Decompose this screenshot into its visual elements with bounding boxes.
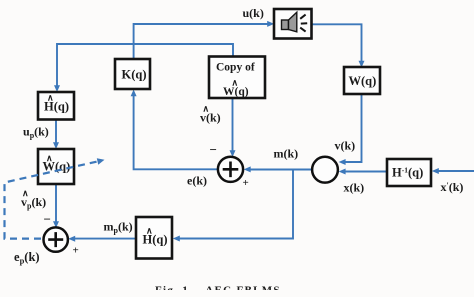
block Copy of W^(q) xyxy=(209,57,265,99)
wire: loudspeaker output right then down into W(q) xyxy=(312,24,365,67)
svg-text:v(k): v(k) xyxy=(335,139,356,153)
block K(q) xyxy=(115,59,150,89)
svg-text:u(k): u(k) xyxy=(243,6,264,20)
wire m(k): mixing node output left into summer e(k) xyxy=(244,166,313,172)
block H^(q) top-left xyxy=(38,92,74,120)
summer e(k) xyxy=(218,157,243,182)
wire e(k): summer output left then up into K(q) bottom xyxy=(131,90,218,170)
wire v(k): W(q) output down then left into mixing node xyxy=(339,94,362,165)
svg-text:−: − xyxy=(44,212,51,227)
svg-text:ep(k): ep(k) xyxy=(14,250,40,266)
wire: u(k) tap line to top-left H(q) and Copy of W(q) xyxy=(54,44,233,92)
block H^(q) bottom xyxy=(136,217,172,259)
caption Fig. 1 xyxy=(140,285,310,297)
wire x'(k): right edge into H-1(q) xyxy=(432,168,474,174)
mixing node (circle) xyxy=(312,157,338,183)
wire v^(k): Copy of W(q) output down into summer e(k) top xyxy=(230,98,236,157)
svg-text:up(k): up(k) xyxy=(23,125,49,141)
svg-text:H(q): H(q) xyxy=(143,233,168,247)
svg-text:x(k): x(k) xyxy=(344,181,365,195)
svg-text:−: − xyxy=(210,142,217,157)
wire u_p(k): top-left H(q) output down into W^(q) xyxy=(53,120,59,150)
svg-text:+: + xyxy=(73,245,79,257)
svg-text:H(q): H(q) xyxy=(44,100,69,114)
svg-text:W(q): W(q) xyxy=(349,74,377,88)
svg-text:K(q): K(q) xyxy=(122,68,147,82)
svg-text:mp(k): mp(k) xyxy=(104,220,133,236)
svg-text:H-1(q): H-1(q) xyxy=(392,166,423,180)
loudspeaker block xyxy=(274,9,312,39)
wire v^p(k): W^(q) output down into summer e_p(k) top xyxy=(53,184,59,228)
svg-text:e(k): e(k) xyxy=(187,174,207,188)
svg-text:m(k): m(k) xyxy=(274,147,299,161)
wire u(k): K(q) output up and right to loudspeaker xyxy=(134,21,275,59)
summer e_p(k) xyxy=(44,227,68,251)
wire x(k): H-1(q) output left into mixing node xyxy=(339,169,387,175)
block W^(q) xyxy=(38,149,74,184)
svg-text:W(q): W(q) xyxy=(223,86,249,98)
svg-text:v(k): v(k) xyxy=(200,111,221,125)
svg-text:x'(k): x'(k) xyxy=(441,180,464,194)
wire: m(k) branch down then left into bottom H(q) xyxy=(173,170,293,242)
wire (dashed adaptation path): from summer e_p(k) left, up edge, through W^(q) xyxy=(5,158,105,238)
label v^p(k) xyxy=(21,188,46,211)
block W(q) xyxy=(344,67,380,94)
svg-text:Copy of: Copy of xyxy=(216,62,255,74)
wire m_p(k): bottom H(q) output left into summer e_p(k) xyxy=(68,236,136,242)
svg-text:vp(k): vp(k) xyxy=(21,195,46,211)
label v^(k) xyxy=(200,104,221,125)
block H-1(q) xyxy=(387,159,431,186)
svg-text:+: + xyxy=(243,177,249,189)
